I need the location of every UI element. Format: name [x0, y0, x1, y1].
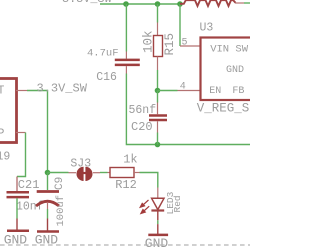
svg-text:V_REG_S: V_REG_S: [197, 102, 250, 116]
svg-text:SJ3: SJ3: [70, 157, 91, 170]
ground symbol GND (LED3): [148, 234, 168, 237]
svg-text:10k: 10k: [142, 30, 156, 53]
capacitor C16 plates: [115, 59, 140, 62]
wire C20 to FB rail: [157, 133, 159, 145]
solder jumper SJ3 lead right: [93, 172, 100, 174]
svg-text:GND: GND: [226, 65, 244, 76]
resistor R15 lead top: [157, 23, 159, 36]
wire FB rail right: [158, 144, 251, 146]
svg-text:Red: Red: [172, 195, 183, 212]
svg-text:3.3V_SW: 3.3V_SW: [62, 0, 112, 6]
svg-text:FB: FB: [232, 86, 244, 97]
capacitor C20 lead top: [157, 103, 159, 115]
wire C21 to GND: [16, 198, 18, 218]
svg-text:GND: GND: [145, 236, 169, 250]
svg-text:1k: 1k: [123, 153, 137, 167]
wire C16 to FB rail: [126, 74, 157, 145]
svg-text:EN: EN: [209, 86, 221, 97]
svg-text:C9: C9: [54, 177, 66, 190]
wire R12 to LED3: [140, 173, 158, 188]
op IC U3 box: [201, 38, 261, 101]
LED3 arrow 1: [140, 200, 149, 207]
svg-text:4.7uF: 4.7uF: [87, 48, 119, 60]
wire 3.3V_SW: [27, 91, 48, 173]
LED3 arrow 2: [141, 206, 150, 213]
svg-text:GND: GND: [35, 233, 59, 248]
wire top rail 3.3V_SW: [100, 3, 180, 5]
wire EN: [158, 90, 178, 92]
capacitor C9 plate +: [37, 190, 59, 193]
resistor R15 lead bottom: [157, 57, 159, 71]
capacitor C16 lead top: [125, 52, 127, 59]
pin BYP lead: [16, 132, 26, 134]
capacitor C21 lead top: [16, 177, 18, 192]
svg-text:C16: C16: [96, 71, 117, 84]
svg-text:5: 5: [182, 38, 188, 49]
sheet boundary dashed line: [0, 244, 250, 246]
LED3 triangle: [152, 198, 164, 209]
svg-text:56nf: 56nf: [129, 104, 157, 117]
resistor R12 lead left: [108, 172, 111, 174]
junction dot top rail / L and VIN: [177, 1, 183, 7]
svg-text:VIN SW: VIN SW: [210, 44, 249, 56]
svg-text:3.3V_SW: 3.3V_SW: [37, 82, 88, 96]
wire SJ3 left: [48, 172, 69, 174]
svg-text:19: 19: [0, 151, 10, 164]
junction dot top rail / C16: [123, 1, 129, 7]
svg-text:R12: R12: [115, 178, 137, 192]
wire C16 branch down: [125, 4, 127, 52]
svg-text:U3: U3: [200, 22, 214, 35]
svg-text:P: P: [0, 128, 5, 141]
wire VIN branch down: [179, 4, 181, 46]
pin OUT lead: [16, 90, 27, 92]
svg-text:100uf: 100uf: [55, 195, 67, 227]
regulator IC box (left, cut off): [0, 79, 17, 143]
wire C20 branch down: [157, 91, 159, 103]
resistor R15 body: [154, 36, 163, 57]
junction dot FB rail / C20: [155, 142, 161, 148]
capacitor C9 plate - (curved): [36, 201, 59, 206]
pin VIN lead: [180, 45, 201, 47]
capacitor C16 lead bottom: [125, 66, 127, 73]
capacitor C20 lead bottom: [157, 121, 159, 132]
svg-text:4: 4: [180, 82, 186, 93]
wire SJ3 to R12: [100, 172, 108, 174]
wire R15 branch down: [157, 4, 159, 23]
pin EN lead: [178, 90, 201, 92]
ground lead C21: [16, 219, 18, 231]
solder jumper SJ3 lead left: [69, 172, 77, 174]
resistor R12 body: [110, 168, 134, 178]
junction dot top rail / R15: [155, 1, 161, 7]
svg-text:R15: R15: [163, 33, 177, 56]
capacitor C9 wire top: [47, 173, 49, 191]
LED3 lead bottom: [157, 212, 159, 221]
svg-text:C21: C21: [18, 178, 40, 192]
svg-text:GND: GND: [4, 233, 28, 248]
capacitor C21 plates: [7, 191, 30, 194]
wire SW out right edge: [244, 2, 250, 4]
svg-text:C20: C20: [131, 120, 153, 134]
junction dot 3.3V_SW / SJ3 / C9: [45, 170, 51, 176]
solder jumper SJ3: [77, 167, 84, 181]
capacitor C20 plates: [149, 114, 167, 117]
ground symbol GND (C21): [7, 230, 29, 233]
LED3 lead top: [157, 188, 159, 198]
ground symbol GND (C9): [37, 230, 59, 233]
inductor L lead right: [235, 2, 244, 4]
capacitor C9 lead bottom: [47, 203, 49, 209]
resistor R12 lead right: [134, 172, 140, 174]
LED3 cathode bar: [151, 209, 164, 211]
wire R15 to EN junction: [157, 70, 159, 91]
junction dot EN: [155, 88, 161, 94]
svg-text:T: T: [0, 85, 5, 98]
wire BYP to C21: [17, 133, 26, 177]
inductor L (top right): [180, 0, 236, 6]
